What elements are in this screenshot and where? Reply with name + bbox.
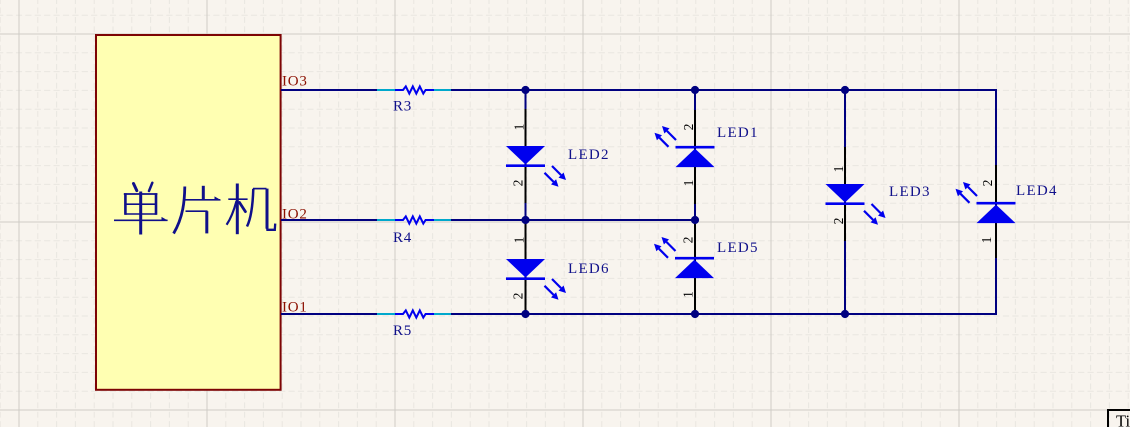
- svg-text:LED5: LED5: [717, 240, 759, 256]
- svg-text:1: 1: [512, 237, 527, 244]
- svg-text:IO3: IO3: [282, 74, 308, 90]
- svg-text:R3: R3: [393, 99, 412, 115]
- svg-text:LED6: LED6: [568, 261, 610, 277]
- svg-text:2: 2: [681, 124, 696, 131]
- svg-text:1: 1: [681, 180, 696, 187]
- svg-text:IO1: IO1: [282, 300, 308, 316]
- svg-text:2: 2: [681, 237, 696, 244]
- svg-text:LED3: LED3: [889, 184, 931, 200]
- svg-text:2: 2: [511, 293, 526, 300]
- svg-text:LED1: LED1: [717, 125, 759, 141]
- svg-text:IO2: IO2: [282, 207, 308, 223]
- svg-text:R5: R5: [393, 323, 412, 339]
- svg-text:2: 2: [831, 218, 846, 225]
- svg-text:LED2: LED2: [568, 147, 610, 163]
- svg-text:Ti: Ti: [1116, 412, 1130, 427]
- svg-text:1: 1: [831, 166, 846, 173]
- svg-text:2: 2: [511, 180, 526, 187]
- svg-text:2: 2: [980, 180, 995, 187]
- svg-text:R4: R4: [393, 230, 412, 246]
- svg-text:1: 1: [979, 237, 994, 244]
- svg-text:1: 1: [681, 291, 696, 298]
- svg-text:LED4: LED4: [1016, 183, 1058, 199]
- svg-text:1: 1: [512, 124, 527, 131]
